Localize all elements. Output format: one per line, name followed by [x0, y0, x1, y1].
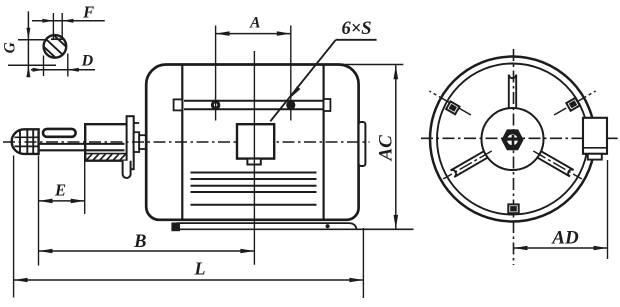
- dimension E line: [39, 199, 85, 204]
- radial centerline lower-right: [533, 151, 582, 179]
- A extension left: [215, 26, 217, 121]
- svg-text:AC: AC: [375, 135, 396, 162]
- horizontal centerline: [3, 141, 370, 143]
- stator core right edge: [323, 65, 325, 220]
- dimension D line: [31, 68, 95, 72]
- radial centerline upper-right: [554, 91, 596, 115]
- bearing hatch strokes: [87, 154, 126, 160]
- label AC: [375, 135, 396, 162]
- svg-text:D: D: [81, 52, 94, 69]
- right bearing boss: [359, 122, 366, 166]
- bearing boss step A: [134, 132, 140, 152]
- motor housing outline: [146, 65, 358, 220]
- shaft center cross: [507, 135, 518, 146]
- label L: [194, 259, 206, 279]
- svg-text:G: G: [2, 41, 19, 53]
- dimension AC line: [394, 65, 399, 229]
- cover bolt bottom: [508, 204, 518, 213]
- D extension right: [67, 54, 69, 77]
- bearing block outline: [85, 124, 126, 161]
- cover bolt upper-left: [446, 101, 459, 114]
- shaft bore: [507, 134, 518, 145]
- shaft top line: [39, 143, 125, 145]
- radial centerline lower-left: [443, 151, 492, 179]
- svg-text:B: B: [133, 232, 146, 252]
- hub circle: [482, 108, 544, 170]
- label F: [82, 3, 94, 22]
- end view vertical centerline: [513, 49, 515, 265]
- mounting hole left: [211, 100, 221, 110]
- keyway flat chord: [51, 38, 65, 40]
- shaft nut hexagon: [503, 131, 522, 149]
- lifting bar top line: [184, 100, 323, 102]
- keyway side left: [52, 13, 54, 39]
- cover bolt upper-right: [566, 98, 579, 111]
- dimension G line: [26, 11, 30, 77]
- AC top reference line: [339, 64, 403, 66]
- label 6xS: [341, 19, 371, 39]
- shaft key: [43, 129, 76, 137]
- A extension right: [290, 26, 292, 121]
- foot bolt dot: [326, 224, 330, 228]
- drain bracket: [123, 161, 131, 178]
- end view box centerline dash: [607, 137, 618, 139]
- fan blade up: [509, 75, 516, 111]
- dimension A line: [216, 31, 291, 36]
- terminal box: [237, 124, 274, 158]
- bar left clip: [174, 99, 183, 110]
- lifting bar bottom line: [184, 108, 323, 110]
- shaft bottom line: [39, 149, 125, 151]
- end-shield top connector: [134, 122, 140, 124]
- shaft end knob: [12, 129, 39, 154]
- label D: [81, 52, 94, 69]
- cooling fins: [191, 173, 317, 205]
- end view terminal box foot: [588, 154, 602, 160]
- vertical center extension line: [253, 51, 255, 265]
- base plate left cap: [171, 223, 180, 232]
- label A: [249, 15, 260, 32]
- L right extension: [362, 228, 364, 298]
- end view terminal box: [583, 118, 607, 154]
- AD right extension: [607, 160, 609, 259]
- fan blade lower-right: [536, 150, 574, 176]
- dimension L line: [14, 278, 364, 283]
- keyway side right: [61, 13, 63, 39]
- svg-text:E: E: [54, 181, 66, 200]
- hatching in shaft section: [40, 31, 70, 61]
- label B: [133, 232, 146, 252]
- base plate top line: [177, 222, 350, 224]
- leader 6xS: [270, 40, 376, 122]
- terminal box notch: [247, 159, 260, 165]
- label G: [2, 41, 19, 53]
- svg-text:F: F: [82, 3, 94, 22]
- bearing hatch band top: [85, 153, 126, 155]
- fan blade lower-left: [451, 150, 490, 177]
- G bottom extension tick: [8, 64, 56, 66]
- label E: [54, 181, 66, 200]
- shaft cross-section circle: [44, 35, 67, 58]
- mounting hole right: [286, 100, 295, 109]
- end view horizontal centerline: [421, 137, 618, 139]
- end view terminal box line: [583, 147, 607, 149]
- base plate bottom line: [177, 228, 414, 230]
- L left extension: [13, 156, 15, 298]
- end view outer circle: [430, 57, 595, 222]
- svg-text:A: A: [249, 15, 260, 32]
- dimension B line: [39, 249, 255, 254]
- base plate right corner: [350, 223, 357, 229]
- svg-text:L: L: [194, 259, 206, 279]
- dimension F line: [32, 19, 105, 23]
- svg-text:AD: AD: [551, 228, 579, 249]
- end-shield plate: [127, 116, 134, 169]
- bar right clip: [324, 99, 331, 111]
- G top extension tick: [18, 39, 45, 41]
- radial centerline upper-left: [429, 91, 471, 115]
- E right extension: [84, 162, 86, 214]
- D extension left: [43, 56, 45, 77]
- stator core left edge: [181, 65, 183, 220]
- end view inner circle: [437, 64, 588, 215]
- label AD: [551, 228, 579, 249]
- svg-text:6×S: 6×S: [341, 19, 371, 39]
- E/B left extension: [38, 156, 40, 266]
- dimension AD line: [514, 246, 608, 251]
- bearing boss step B: [139, 135, 146, 149]
